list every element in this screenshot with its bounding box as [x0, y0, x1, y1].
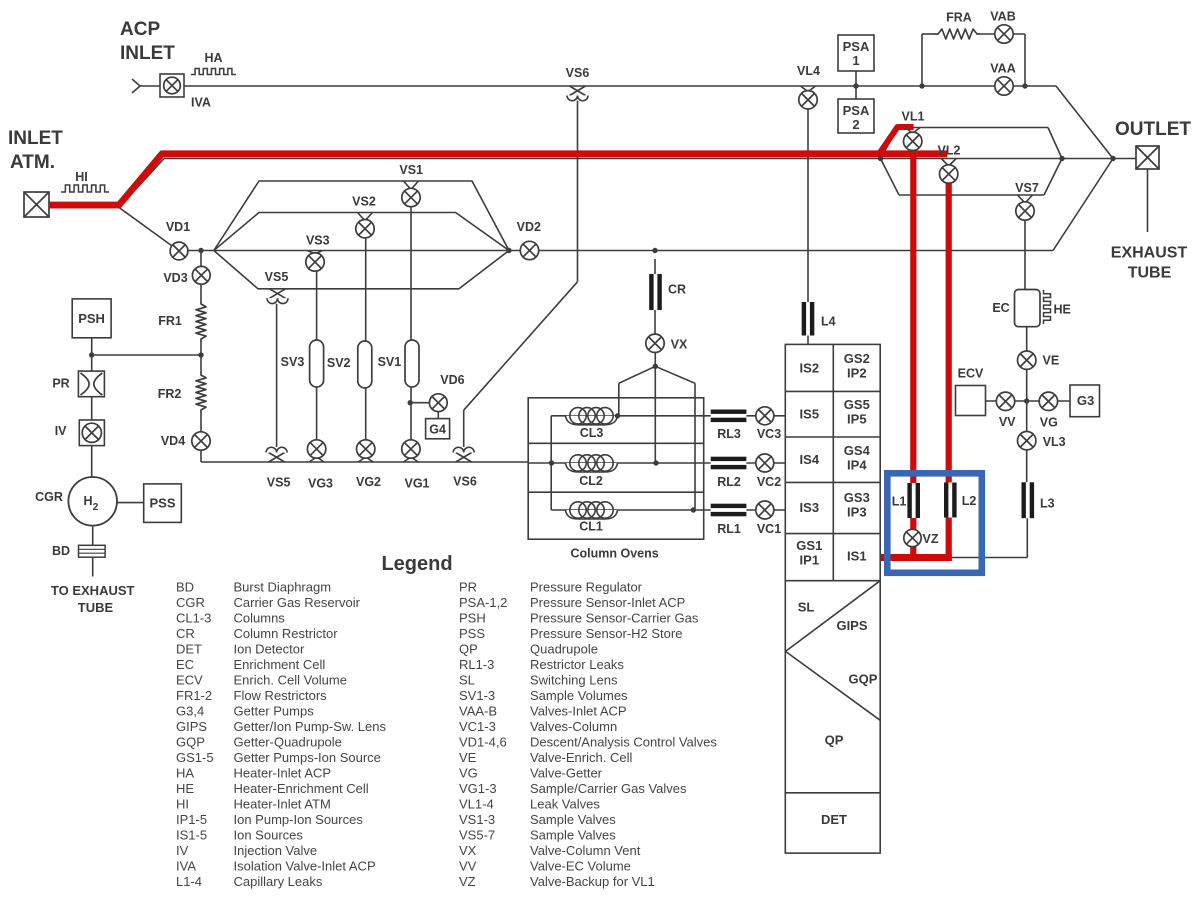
svg-text:VG: VG [459, 766, 478, 781]
svg-text:ACP: ACP [120, 19, 160, 40]
svg-text:L1-4: L1-4 [176, 874, 202, 889]
svg-text:PSA: PSA [843, 103, 870, 118]
svg-text:PR: PR [52, 376, 69, 390]
svg-text:Pressure Sensor-Carrier Gas: Pressure Sensor-Carrier Gas [530, 611, 699, 626]
svg-text:GS1-5: GS1-5 [176, 750, 214, 765]
svg-text:Sample Volumes: Sample Volumes [530, 688, 628, 703]
svg-text:GS2: GS2 [844, 351, 870, 366]
svg-text:RL1: RL1 [717, 522, 741, 536]
svg-text:1: 1 [852, 53, 859, 68]
svg-text:VL2: VL2 [938, 144, 961, 158]
svg-text:Leak Valves: Leak Valves [530, 797, 600, 812]
svg-text:RL3: RL3 [717, 427, 741, 441]
svg-text:VAB: VAB [990, 10, 1015, 24]
svg-text:Switching Lens: Switching Lens [530, 673, 618, 688]
svg-text:VAA: VAA [990, 62, 1015, 76]
svg-text:DET: DET [176, 642, 202, 657]
svg-text:CL1: CL1 [579, 520, 603, 534]
svg-text:CL3: CL3 [580, 426, 604, 440]
svg-text:QP: QP [825, 733, 844, 748]
svg-text:L1: L1 [892, 495, 907, 509]
svg-text:PSA: PSA [843, 39, 870, 54]
svg-text:L3: L3 [1040, 497, 1055, 511]
svg-text:CL1-3: CL1-3 [176, 611, 211, 626]
svg-text:IS4: IS4 [800, 452, 820, 467]
svg-text:HI: HI [176, 797, 189, 812]
svg-text:GQP: GQP [176, 735, 205, 750]
svg-text:BD: BD [52, 544, 70, 558]
svg-text:IS2: IS2 [800, 360, 820, 375]
svg-text:SV3: SV3 [281, 355, 305, 369]
svg-text:Ion Pump-Ion Sources: Ion Pump-Ion Sources [234, 812, 364, 827]
svg-text:IV: IV [55, 424, 67, 438]
svg-text:VS1: VS1 [399, 163, 423, 177]
svg-text:OUTLET: OUTLET [1115, 119, 1191, 140]
svg-text:Enrichment Cell: Enrichment Cell [234, 657, 326, 672]
svg-text:IP2: IP2 [847, 366, 867, 381]
svg-text:FR1-2: FR1-2 [176, 688, 212, 703]
svg-text:ECV: ECV [176, 673, 203, 688]
svg-text:Column Ovens: Column Ovens [570, 546, 658, 560]
svg-text:SV1: SV1 [378, 355, 402, 369]
svg-text:VS6: VS6 [566, 66, 590, 80]
svg-text:GQP: GQP [849, 672, 878, 687]
svg-text:VAA-B: VAA-B [459, 704, 497, 719]
svg-text:VG2: VG2 [356, 475, 381, 489]
svg-text:SV1-3: SV1-3 [459, 688, 495, 703]
svg-text:INLET: INLET [120, 43, 175, 64]
svg-text:Pressure Regulator: Pressure Regulator [530, 580, 643, 595]
svg-text:Getter/Ion Pump-Sw. Lens: Getter/Ion Pump-Sw. Lens [234, 719, 387, 734]
svg-text:Flow Restrictors: Flow Restrictors [234, 688, 328, 703]
svg-text:Enrich. Cell Volume: Enrich. Cell Volume [234, 673, 347, 688]
svg-text:VD3: VD3 [163, 271, 187, 285]
svg-text:VC1-3: VC1-3 [459, 719, 496, 734]
svg-text:Sample Valves: Sample Valves [530, 812, 616, 827]
svg-text:Ion Sources: Ion Sources [234, 828, 304, 843]
svg-text:VS5: VS5 [267, 476, 291, 490]
svg-text:EXHAUST: EXHAUST [1111, 245, 1188, 262]
svg-text:GS1: GS1 [796, 538, 822, 553]
svg-text:Isolation Valve-Inlet ACP: Isolation Valve-Inlet ACP [234, 859, 376, 874]
svg-text:CR: CR [668, 283, 686, 297]
svg-text:Valve-Backup for VL1: Valve-Backup for VL1 [530, 874, 655, 889]
svg-text:Sample Valves: Sample Valves [530, 828, 616, 843]
svg-text:VD2: VD2 [517, 220, 541, 234]
svg-text:Descent/Analysis Control Valve: Descent/Analysis Control Valves [530, 735, 717, 750]
svg-text:HA: HA [176, 766, 194, 781]
svg-text:Heater-Enrichment Cell: Heater-Enrichment Cell [234, 781, 369, 796]
svg-text:RL2: RL2 [717, 475, 741, 489]
svg-text:PSS: PSS [149, 496, 175, 511]
svg-text:VG: VG [1040, 415, 1058, 429]
svg-text:Valve-Enrich. Cell: Valve-Enrich. Cell [530, 750, 632, 765]
svg-text:VC2: VC2 [757, 475, 781, 489]
svg-text:Restrictor Leaks: Restrictor Leaks [530, 657, 624, 672]
svg-text:EC: EC [176, 657, 194, 672]
svg-text:VC3: VC3 [757, 427, 781, 441]
svg-text:Getter-Quadrupole: Getter-Quadrupole [234, 735, 342, 750]
svg-text:VC1: VC1 [757, 522, 781, 536]
svg-text:VG1-3: VG1-3 [459, 781, 497, 796]
svg-text:2: 2 [93, 502, 99, 513]
svg-text:Pressure Sensor-Inlet ACP: Pressure Sensor-Inlet ACP [530, 595, 685, 610]
svg-text:VE: VE [459, 750, 477, 765]
svg-text:HA: HA [204, 51, 222, 65]
svg-text:VG1: VG1 [404, 477, 429, 491]
svg-text:Valves-Column: Valves-Column [530, 719, 617, 734]
svg-text:IVA: IVA [191, 96, 211, 110]
svg-text:BD: BD [176, 580, 194, 595]
svg-text:IS1-5: IS1-5 [176, 828, 207, 843]
svg-text:Heater-Inlet ATM: Heater-Inlet ATM [234, 797, 331, 812]
svg-text:VS6: VS6 [453, 475, 477, 489]
svg-text:Capillary Leaks: Capillary Leaks [234, 874, 323, 889]
svg-text:TUBE: TUBE [78, 600, 114, 615]
svg-text:PSS: PSS [459, 626, 485, 641]
svg-text:VG3: VG3 [308, 477, 333, 491]
svg-text:PSH: PSH [459, 611, 486, 626]
svg-text:IP5: IP5 [847, 412, 867, 427]
svg-text:Valves-Inlet ACP: Valves-Inlet ACP [530, 704, 627, 719]
svg-text:Column Restrictor: Column Restrictor [234, 626, 339, 641]
svg-text:GIPS: GIPS [176, 719, 207, 734]
svg-text:IP1-5: IP1-5 [176, 812, 207, 827]
svg-text:VS5: VS5 [265, 270, 289, 284]
svg-text:TUBE: TUBE [1128, 265, 1172, 282]
svg-text:IS3: IS3 [800, 500, 820, 515]
svg-text:Burst Diaphragm: Burst Diaphragm [234, 580, 332, 595]
svg-text:Quadrupole: Quadrupole [530, 642, 598, 657]
svg-text:SL: SL [798, 600, 815, 615]
svg-text:QP: QP [459, 642, 478, 657]
svg-text:FR1: FR1 [158, 314, 182, 328]
svg-text:G4: G4 [429, 423, 446, 437]
svg-text:VD1: VD1 [166, 220, 190, 234]
svg-text:VL3: VL3 [1043, 435, 1066, 449]
svg-text:VS5-7: VS5-7 [459, 828, 495, 843]
svg-text:VX: VX [671, 338, 688, 352]
svg-text:VS7: VS7 [1015, 181, 1039, 195]
svg-text:2: 2 [852, 117, 859, 132]
svg-text:GIPS: GIPS [836, 618, 867, 633]
svg-text:VD4: VD4 [161, 434, 185, 448]
svg-text:Valve-Column Vent: Valve-Column Vent [530, 843, 641, 858]
svg-text:VX: VX [459, 843, 477, 858]
svg-text:IV: IV [176, 843, 189, 858]
svg-text:VL1: VL1 [902, 110, 925, 124]
svg-text:CGR: CGR [35, 490, 63, 504]
svg-text:Getter Pumps: Getter Pumps [234, 704, 315, 719]
svg-text:VD6: VD6 [440, 373, 464, 387]
svg-text:HE: HE [176, 781, 194, 796]
svg-text:VV: VV [459, 859, 477, 874]
svg-text:Getter Pumps-Ion Source: Getter Pumps-Ion Source [234, 750, 381, 765]
svg-text:IS1: IS1 [847, 549, 867, 564]
svg-text:PSA-1,2: PSA-1,2 [459, 595, 507, 610]
svg-text:DET: DET [821, 812, 847, 827]
svg-text:Pressure Sensor-H2 Store: Pressure Sensor-H2 Store [530, 626, 682, 641]
svg-text:VE: VE [1043, 354, 1060, 368]
svg-text:FRA: FRA [946, 11, 972, 25]
svg-text:ECV: ECV [958, 367, 984, 381]
svg-text:Carrier Gas Reservoir: Carrier Gas Reservoir [234, 595, 361, 610]
svg-text:INLET: INLET [8, 128, 63, 149]
svg-text:VS1-3: VS1-3 [459, 812, 495, 827]
svg-text:GS3: GS3 [844, 490, 870, 505]
svg-text:Valve-EC Volume: Valve-EC Volume [530, 859, 631, 874]
svg-text:CGR: CGR [176, 595, 205, 610]
svg-text:IP1: IP1 [800, 553, 820, 568]
svg-text:EC: EC [992, 301, 1009, 315]
svg-text:HE: HE [1054, 303, 1071, 317]
svg-text:G3,4: G3,4 [176, 704, 204, 719]
svg-text:SV2: SV2 [327, 356, 351, 370]
svg-text:FR2: FR2 [158, 387, 182, 401]
svg-text:Ion Detector: Ion Detector [234, 642, 305, 657]
svg-text:VS3: VS3 [306, 234, 330, 248]
svg-text:VS2: VS2 [352, 195, 376, 209]
svg-text:VL4: VL4 [797, 64, 820, 78]
svg-text:Sample/Carrier Gas Valves: Sample/Carrier Gas Valves [530, 781, 687, 796]
svg-text:IS5: IS5 [800, 407, 820, 422]
svg-text:G3: G3 [1077, 393, 1094, 408]
svg-text:VL1-4: VL1-4 [459, 797, 494, 812]
svg-text:HI: HI [75, 170, 88, 184]
svg-text:IP4: IP4 [847, 458, 867, 473]
svg-text:ATM.: ATM. [10, 152, 55, 173]
svg-text:SL: SL [459, 673, 475, 688]
svg-text:PR: PR [459, 580, 477, 595]
svg-text:Legend: Legend [381, 553, 452, 575]
svg-text:Columns: Columns [234, 611, 286, 626]
svg-text:TO EXHAUST: TO EXHAUST [51, 583, 135, 598]
svg-text:VZ: VZ [459, 874, 476, 889]
svg-text:L2: L2 [962, 494, 977, 508]
svg-text:PSH: PSH [78, 311, 105, 326]
svg-text:L4: L4 [821, 315, 836, 329]
svg-text:CL2: CL2 [579, 474, 603, 488]
svg-text:Heater-Inlet ACP: Heater-Inlet ACP [234, 766, 332, 781]
svg-text:IVA: IVA [176, 859, 196, 874]
svg-text:VV: VV [999, 415, 1016, 429]
svg-text:VD1-4,6: VD1-4,6 [459, 735, 507, 750]
svg-text:IP3: IP3 [847, 505, 867, 520]
svg-text:CR: CR [176, 626, 195, 641]
svg-text:RL1-3: RL1-3 [459, 657, 494, 672]
svg-text:GS4: GS4 [844, 443, 871, 458]
svg-text:GS5: GS5 [844, 397, 870, 412]
svg-text:Valve-Getter: Valve-Getter [530, 766, 603, 781]
svg-text:Injection Valve: Injection Valve [234, 843, 318, 858]
svg-text:H: H [83, 494, 92, 508]
svg-text:VZ: VZ [923, 532, 939, 546]
